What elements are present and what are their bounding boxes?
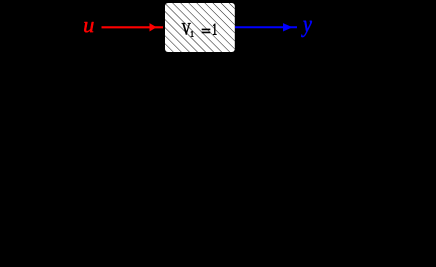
output arrow (wire) bbox=[235, 23, 297, 31]
input arrow (wire) bbox=[102, 23, 164, 31]
input label u bbox=[84, 22, 93, 32]
block V1 (hatched box) bbox=[165, 3, 235, 52]
value label V1 = 1 bbox=[182, 23, 217, 37]
output label y bbox=[301, 21, 312, 37]
